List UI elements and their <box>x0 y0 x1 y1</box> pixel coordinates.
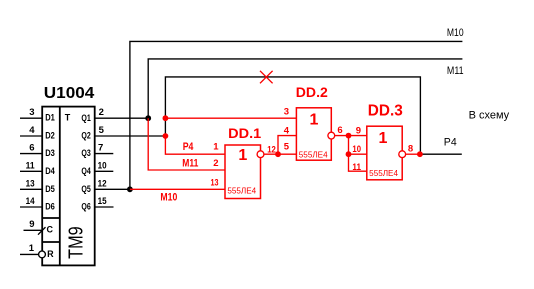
svg-text:555ЛЕ4: 555ЛЕ4 <box>369 169 398 178</box>
node junction P4/Q2 row (red) <box>163 133 169 139</box>
svg-text:D5: D5 <box>45 184 55 194</box>
svg-text:2: 2 <box>213 158 218 169</box>
svg-text:13: 13 <box>211 178 219 189</box>
svg-text:2: 2 <box>99 107 104 118</box>
node junction DD.3 pin 10 branch (red) <box>346 151 352 157</box>
svg-text:1: 1 <box>379 130 388 147</box>
svg-text:5: 5 <box>284 142 290 153</box>
U1004 pin 3 (D1) <box>20 107 55 123</box>
svg-text:555ЛЕ4: 555ЛЕ4 <box>299 150 328 159</box>
U1004 pin 11 (D4) <box>20 160 55 176</box>
svg-text:Q3: Q3 <box>81 148 90 158</box>
svg-text:Q4: Q4 <box>81 166 90 176</box>
svg-text:D4: D4 <box>45 166 55 176</box>
U1004 pin 4 (D2) <box>20 125 55 141</box>
node junction P4 output (red) <box>417 151 423 157</box>
red wire: M10 to DD.1 pin 13 <box>130 188 225 190</box>
svg-text:10: 10 <box>352 144 361 155</box>
svg-text:DD.2: DD.2 <box>296 84 328 100</box>
svg-text:M10: M10 <box>160 192 177 204</box>
svg-text:Q5: Q5 <box>81 184 90 194</box>
svg-text:U1004: U1004 <box>44 85 95 102</box>
svg-text:5: 5 <box>99 125 105 136</box>
node junction on Q5 (M10) <box>127 186 133 192</box>
svg-text:9: 9 <box>29 219 34 230</box>
svg-text:ТМ9: ТМ9 <box>66 226 88 259</box>
svg-text:Q6: Q6 <box>81 202 90 212</box>
svg-text:4: 4 <box>29 125 35 136</box>
svg-text:DD.1: DD.1 <box>228 125 261 141</box>
svg-text:15: 15 <box>98 196 108 207</box>
svg-text:R: R <box>47 249 54 259</box>
wire net M11 (Q1 up and across to the right) <box>148 59 462 118</box>
red wire: branch to DD.2 pin 3 <box>165 117 296 119</box>
U1004 pin 9 (C clock input with dynamic-edge slash) <box>24 219 54 235</box>
svg-text:D1: D1 <box>45 113 55 123</box>
svg-text:P4: P4 <box>444 137 457 149</box>
svg-text:13: 13 <box>26 178 35 189</box>
svg-text:555ЛЕ4: 555ЛЕ4 <box>227 187 256 196</box>
DD.2 output wire to DD.3 pin 9 <box>335 135 367 137</box>
wire P4 feedback (from DD.3 output up and across to left, black) <box>165 77 420 154</box>
node junction P4/Q1 row (red) <box>163 115 169 121</box>
svg-text:6: 6 <box>337 125 342 136</box>
red wire: branch to DD.3 pin 10 <box>349 153 367 155</box>
svg-text:1: 1 <box>238 147 247 164</box>
svg-text:10: 10 <box>98 160 107 171</box>
DD.1 output wire to DD.2 pin 5 <box>264 153 297 155</box>
svg-text:D6: D6 <box>45 202 55 212</box>
U1004 pin 2 (Q1 output) <box>81 107 148 123</box>
wire P4 output to the right (black) <box>420 153 461 155</box>
red wire: DD.2 output down to DD.3 pins 10 and 11 <box>349 136 367 172</box>
svg-text:6: 6 <box>29 143 34 154</box>
svg-text:11: 11 <box>352 162 361 173</box>
svg-text:D3: D3 <box>45 148 55 158</box>
svg-text:12: 12 <box>98 178 107 189</box>
U1004 pin 14 (D6) <box>20 196 55 212</box>
U1004 pin 7 (Q3 output) <box>81 143 113 159</box>
svg-text:C: C <box>47 224 54 234</box>
DD.3 output wire (red) to P4 junction <box>406 153 420 155</box>
node junction DD.1 output (red) <box>275 151 281 157</box>
svg-text:12: 12 <box>267 144 276 155</box>
U1004 pin 6 (D3) <box>20 143 55 159</box>
svg-text:8: 8 <box>408 143 413 154</box>
red wire: DD.1 output up to DD.2 pin 4 <box>278 136 296 155</box>
svg-text:T: T <box>65 112 71 122</box>
svg-text:Q2: Q2 <box>81 131 90 141</box>
svg-text:M11: M11 <box>182 158 198 170</box>
U1004 pin 10 (Q4 output) <box>81 160 113 176</box>
U1004 pin 13 (D5) <box>20 178 55 194</box>
svg-text:7: 7 <box>98 143 103 154</box>
svg-text:1: 1 <box>213 142 219 153</box>
svg-text:В схему: В схему <box>469 110 510 122</box>
node junction DD.2 output (red) <box>346 133 352 139</box>
svg-text:D2: D2 <box>45 131 55 141</box>
svg-text:1: 1 <box>29 243 35 254</box>
svg-text:Q1: Q1 <box>81 113 90 123</box>
node junction on Q1 (M11) <box>145 115 151 121</box>
svg-text:3: 3 <box>284 107 289 118</box>
svg-text:1: 1 <box>309 112 318 129</box>
U1004 pin 5 (Q2 output) <box>81 125 165 141</box>
red wire: P4 branch down to DD.1 pin 1 <box>165 136 225 154</box>
svg-text:M10: M10 <box>447 27 464 39</box>
svg-text:9: 9 <box>356 126 361 137</box>
wire net M10 (Q5 up and across to the right) <box>130 41 463 189</box>
svg-text:3: 3 <box>29 107 34 118</box>
IC U1004 body <box>42 107 94 266</box>
gate DD.2 (3-input NOR, 555ЛЕ4) <box>296 84 335 160</box>
svg-text:M11: M11 <box>447 65 464 77</box>
svg-text:14: 14 <box>26 196 36 207</box>
deleted-wire cross mark <box>260 71 273 84</box>
U1004 pin 12 (Q5 output) <box>81 178 129 194</box>
svg-text:DD.3: DD.3 <box>368 103 403 120</box>
U1004 pin 15 (Q6 output) <box>81 196 113 212</box>
U1004 pin 1 (R reset input with inversion bubble) <box>20 243 54 259</box>
gate DD.1 (3-input NOR, 555ЛЕ4) <box>225 125 264 199</box>
svg-text:P4: P4 <box>183 141 194 153</box>
red wire: M11 branch down to DD.1 pin 2 <box>148 118 225 170</box>
svg-text:4: 4 <box>284 125 290 136</box>
svg-text:11: 11 <box>26 160 36 171</box>
gate DD.3 (3-input NOR, 555ЛЕ4) <box>367 103 406 180</box>
